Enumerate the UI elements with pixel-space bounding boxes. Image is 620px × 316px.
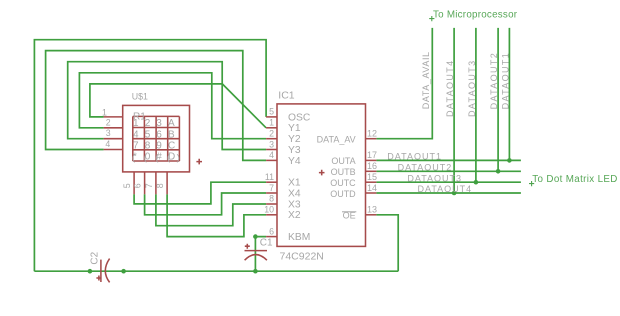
IC1 pin 2 Y2: [266, 138, 277, 140]
wire: keypad pin7 to X3: [156, 194, 266, 225]
svg-text:Y3: Y3: [288, 145, 301, 156]
keypad left pin 4: [104, 149, 123, 151]
svg-text:DATA_AVAIL: DATA_AVAIL: [421, 51, 431, 109]
junction: C1 bottom: [253, 269, 258, 274]
IC1 pin 12 DATA_AV: [366, 138, 377, 140]
svg-text:2: 2: [145, 118, 151, 129]
svg-text:2: 2: [106, 117, 111, 127]
wire: keypad pin8 to X2: [167, 194, 266, 236]
svg-text:9: 9: [156, 141, 162, 152]
svg-text:B: B: [168, 129, 175, 140]
svg-text:4: 4: [105, 139, 110, 149]
IC1 pin 10 X2: [266, 214, 277, 216]
keypad bottom pin 8: [166, 172, 168, 194]
IC1 pin 8 X3: [266, 203, 277, 205]
keypad U$1 outer box: [123, 105, 190, 171]
svg-text:7: 7: [144, 183, 154, 188]
wire: DATAOUT2 vertical: [497, 28, 499, 171]
svg-text:16: 16: [367, 161, 377, 171]
keypad left pin 2: [104, 127, 123, 129]
svg-text:X4: X4: [288, 188, 301, 199]
svg-text:Y4: Y4: [288, 156, 301, 167]
junction: C2 left: [88, 269, 93, 274]
IC1 pin 11 X1: [266, 181, 277, 183]
keypad left pin 3: [104, 138, 123, 140]
svg-text:13: 13: [367, 205, 377, 215]
svg-text:X2: X2: [288, 210, 301, 221]
IC1 pin 3 Y3: [266, 149, 277, 151]
junction: DATAOUT3: [474, 180, 479, 185]
svg-text:3: 3: [156, 118, 162, 129]
svg-text:To Dot Matrix LED: To Dot Matrix LED: [532, 174, 617, 185]
svg-text:7: 7: [133, 141, 139, 152]
junction: DATAOUT2: [496, 169, 501, 174]
svg-text:C: C: [168, 141, 175, 152]
wire: keypad pin3 to Y3: [68, 62, 266, 150]
svg-text:6: 6: [133, 183, 143, 188]
capacitor C1 plus: [245, 244, 250, 249]
capacitor C2 plus: [96, 276, 101, 281]
svg-text:1: 1: [133, 118, 139, 129]
svg-text:DATAOUT1: DATAOUT1: [387, 152, 442, 162]
svg-text:1: 1: [269, 118, 274, 128]
keypad bottom pin 7: [155, 172, 157, 194]
wire: keypad pin1 to Y1 (with diagonal): [90, 84, 266, 128]
svg-text:KBM: KBM: [288, 232, 310, 243]
wire: keypad pin4 to Y4: [46, 51, 267, 161]
svg-text:To Microprocessor: To Microprocessor: [433, 9, 518, 20]
svg-text:4: 4: [133, 129, 139, 140]
keypad origin cross: [196, 159, 202, 165]
svg-text:10: 10: [264, 205, 274, 215]
IC1 pin 7 X4: [266, 192, 277, 194]
keypad bottom pin 6: [144, 172, 146, 194]
IC1 pin 15 OUTC: [366, 181, 377, 183]
svg-text:OUTC: OUTC: [330, 178, 356, 188]
IC1 pin 4 Y4: [266, 159, 277, 161]
wire: DATAOUT3 vertical: [475, 28, 477, 182]
svg-text:U$1: U$1: [132, 92, 148, 102]
svg-text:DATAOUT4: DATAOUT4: [445, 60, 455, 117]
svg-text:6: 6: [269, 226, 274, 236]
keypad inner grid: [133, 116, 180, 161]
svg-text:5: 5: [122, 183, 132, 188]
svg-text:2: 2: [269, 129, 274, 139]
IC1 pin 16 OUTB: [366, 170, 377, 172]
keypad left pin 1: [104, 116, 123, 118]
IC1 pin 1 Y1: [266, 127, 277, 129]
junction: C2 right: [121, 269, 126, 274]
svg-text:7: 7: [269, 183, 274, 193]
svg-text:C1: C1: [260, 238, 273, 249]
svg-text:8: 8: [269, 194, 274, 204]
svg-text:DATAOUT3: DATAOUT3: [467, 60, 477, 117]
capacitor C1 plates: [245, 250, 268, 252]
capacitor C2 plates: [100, 260, 102, 282]
wire: OSC loop (net N$1): [34, 40, 266, 272]
wire: keypad pin5 to X1: [134, 182, 266, 204]
svg-text:IC1: IC1: [278, 89, 295, 101]
IC1 pin 5 OSC: [266, 116, 277, 118]
wire: DATAOUT4 horizontal: [376, 192, 521, 194]
IC1 body: [277, 104, 366, 247]
svg-text:OSC: OSC: [288, 112, 311, 123]
svg-text:DATAOUT2: DATAOUT2: [398, 163, 453, 173]
svg-text:DATA_AV: DATA_AV: [317, 135, 356, 145]
svg-text:A: A: [168, 118, 175, 129]
svg-text:Y2: Y2: [288, 134, 301, 145]
svg-text:4: 4: [269, 150, 274, 160]
label: To Dot Matrix LED arrow: [529, 181, 534, 186]
svg-text:12: 12: [367, 129, 377, 139]
svg-text:OUTD: OUTD: [330, 189, 356, 199]
wire: OE to rail: [376, 215, 398, 271]
svg-text:X3: X3: [288, 199, 301, 210]
label: To Microprocessor arrow: [429, 16, 434, 21]
svg-text:14: 14: [367, 183, 377, 193]
IC1 pin 17 OUTA: [366, 159, 377, 161]
svg-text:5: 5: [145, 129, 151, 140]
svg-text:C2: C2: [89, 251, 100, 264]
IC1 pin 13 OE: [366, 214, 377, 216]
svg-text:): ): [177, 153, 180, 164]
svg-text:17: 17: [367, 150, 377, 160]
svg-text:8: 8: [145, 141, 151, 152]
keypad bottom pin 5: [133, 172, 135, 194]
IC1 pin 14 OUTD: [366, 192, 377, 194]
wire: DATAOUT2 horizontal: [376, 170, 521, 172]
svg-text:15: 15: [367, 172, 377, 182]
svg-text:X1: X1: [288, 178, 301, 189]
svg-text:5: 5: [269, 107, 274, 117]
svg-text:3: 3: [106, 128, 111, 138]
svg-text:Y1: Y1: [288, 123, 301, 134]
IC1 pin 6 KBM: [266, 236, 277, 238]
svg-text:DATAOUT4: DATAOUT4: [418, 184, 473, 194]
svg-text:8: 8: [155, 183, 165, 188]
junction: DATAOUT1: [507, 158, 512, 163]
wire: DATAOUT3 horizontal: [376, 181, 521, 183]
svg-text:74C922N: 74C922N: [280, 250, 324, 262]
wire: DATAOUT1 vertical: [508, 28, 510, 161]
junction: DATAOUT4: [452, 191, 457, 196]
svg-text:OUTA: OUTA: [331, 156, 355, 166]
svg-text:11: 11: [265, 172, 274, 182]
svg-text:DATAOUT2: DATAOUT2: [489, 52, 499, 109]
wire: DATAOUT4 vertical: [453, 28, 455, 193]
wire: DATAOUT1 horizontal: [376, 159, 521, 161]
wire: KBM to C1: [255, 237, 266, 272]
wire: keypad pin6 to X4: [145, 193, 267, 215]
svg-text:OUTB: OUTB: [331, 167, 356, 177]
wire: DATA_AV / pin12: [376, 28, 432, 139]
junction: C1 top / KBM: [253, 234, 258, 239]
svg-text:1: 1: [102, 107, 107, 117]
svg-text:DATAOUT3: DATAOUT3: [407, 173, 462, 183]
IC1 origin cross: [319, 170, 325, 176]
wire: ground rail: [34, 270, 398, 272]
svg-text:DATAOUT1: DATAOUT1: [500, 52, 510, 109]
svg-text:6: 6: [156, 129, 162, 140]
svg-text:3: 3: [269, 139, 274, 149]
wire: keypad pin2 to Y2: [79, 73, 266, 139]
